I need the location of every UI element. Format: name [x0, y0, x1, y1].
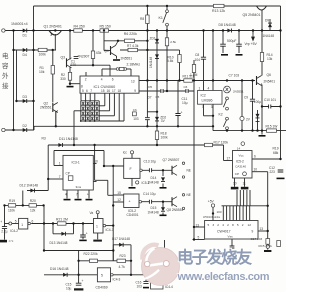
wire R1 chain — [52, 50, 54, 103]
resistor R5 — [100, 29, 109, 32]
wire osc left column — [5, 191, 23, 224]
wire R3 branch x93 — [92, 31, 94, 66]
svg-text:1: 1 — [96, 225, 98, 229]
wire D14 stub — [162, 170, 164, 187]
arrow +5V — [252, 34, 255, 40]
wire IC7 bottom stub — [231, 239, 233, 246]
svg-text:IC4-2: IC4-2 — [10, 229, 18, 233]
wire D18 loop — [113, 245, 131, 275]
zener ZD2 — [155, 117, 159, 121]
svg-text:R23: R23 — [120, 254, 126, 258]
label input chinese — [2, 51, 9, 90]
svg-text:4.7k: 4.7k — [119, 265, 126, 269]
wire mid bus y126 — [34, 125, 213, 127]
bubble IC4-3 — [111, 274, 114, 277]
wire bottom input y130 — [5, 126, 34, 130]
diode D3 — [23, 99, 27, 103]
svg-text:2N5551: 2N5551 — [233, 90, 244, 94]
svg-text:C10 101: C10 101 — [264, 98, 276, 102]
svg-text:C8: C8 — [195, 53, 199, 57]
ground Q4 — [113, 59, 120, 61]
svg-text:1: 1 — [199, 87, 201, 91]
svg-text:D13 1N4148: D13 1N4148 — [50, 241, 68, 245]
svg-text:1N4148: 1N4148 — [263, 34, 275, 38]
svg-text:5: 5 — [198, 235, 200, 239]
svg-text:13: 13 — [260, 227, 264, 231]
svg-text:4: 4 — [208, 87, 210, 91]
svg-text:D15: D15 — [151, 206, 157, 210]
resistor 100k — [38, 48, 47, 51]
capacitor C5 on y91 — [161, 88, 163, 93]
svg-text:5: 5 — [101, 273, 103, 277]
diode D16 — [63, 273, 67, 277]
svg-text:D7: D7 — [148, 96, 152, 100]
IC4-1 box — [94, 219, 104, 234]
diode D8 — [227, 29, 231, 33]
diode D1 — [23, 29, 27, 33]
wire IC5-2 inputs — [113, 195, 124, 202]
svg-text:9: 9 — [252, 229, 254, 233]
svg-text:13k: 13k — [267, 57, 273, 61]
resistor 43k — [91, 51, 94, 59]
resistor on x147 — [146, 15, 149, 24]
wire Q2 emitter — [55, 111, 57, 126]
svg-text:R19: R19 — [273, 146, 279, 150]
wire under logo x164 — [164, 240, 166, 248]
svg-text:47k: 47k — [9, 239, 14, 243]
wire IC7 right pin y231 — [258, 230, 268, 232]
wire IC2 out jog — [204, 104, 214, 116]
wire R22 bus y260 — [79, 260, 131, 262]
svg-text:D1: D1 — [23, 33, 27, 37]
svg-text:7: 7 — [90, 89, 92, 93]
svg-text:K1: K1 — [159, 16, 163, 20]
wire IC7 left pins — [193, 227, 205, 240]
ground bottom right — [264, 250, 271, 252]
svg-text:10: 10 — [233, 181, 237, 185]
svg-text:16: 16 — [107, 89, 111, 93]
resistor R1 — [51, 66, 54, 75]
wire R18 column — [156, 126, 158, 145]
diode D12 — [30, 189, 34, 193]
svg-text:10: 10 — [254, 168, 258, 172]
wire IC5 left pin — [224, 145, 233, 161]
svg-text:+5V: +5V — [208, 200, 215, 204]
svg-text:IC4-4: IC4-4 — [165, 285, 173, 289]
svg-text:C7 103: C7 103 — [229, 73, 240, 77]
svg-text:R15 1W: R15 1W — [266, 124, 279, 128]
svg-text:ZD1: ZD1 — [150, 36, 156, 40]
svg-text:C17 103: C17 103 — [251, 237, 263, 241]
resistor R18 — [155, 131, 158, 140]
svg-text:IC1 CW4060: IC1 CW4060 — [94, 85, 116, 89]
wire Q4 emitter stub — [116, 56, 118, 59]
svg-text:C6: C6 — [133, 108, 137, 112]
ground IC3 a — [64, 199, 71, 201]
capacitor C8 — [201, 57, 207, 59]
svg-text:5: 5 — [237, 223, 239, 227]
svg-text:NE: NE — [187, 169, 191, 173]
wire +5V stub — [212, 207, 214, 220]
svg-text:270: 270 — [71, 63, 77, 67]
transistor Q1 — [49, 31, 62, 36]
transistor Q4 — [110, 46, 112, 55]
svg-text:1N4001×4: 1N4001×4 — [11, 22, 28, 26]
ground x239 — [236, 54, 243, 56]
wire x157 column — [147, 31, 157, 127]
resistor R6 — [125, 39, 135, 42]
svg-text:+: + — [82, 279, 84, 283]
svg-text:D9: D9 — [265, 19, 269, 23]
crystal 2.18MHz — [116, 68, 119, 71]
svg-text:D5: D5 — [148, 85, 152, 89]
svg-text:C13 10µ: C13 10µ — [144, 159, 157, 163]
resistor R22 — [90, 259, 98, 262]
svg-text:D8 1N4148: D8 1N4148 — [219, 23, 236, 27]
ground IC3 b — [75, 199, 82, 201]
capacitor x239 — [236, 44, 242, 46]
svg-text:D14: D14 — [151, 176, 157, 180]
capacitor C6 small — [133, 112, 137, 116]
IC4-4 box — [151, 277, 164, 290]
svg-text:K2: K2 — [219, 113, 223, 117]
wire diode column x257 — [257, 110, 259, 131]
ground IC4-1 — [93, 240, 102, 242]
svg-text:3: 3 — [211, 105, 213, 109]
svg-text:110k: 110k — [8, 208, 15, 212]
wire Q3 collector x70 — [69, 31, 71, 73]
svg-text:R22 220k: R22 220k — [84, 252, 98, 256]
diode D4 — [23, 48, 27, 52]
svg-text:Va: Va — [90, 211, 94, 215]
wire R2 to IC1 pin8 — [70, 80, 80, 85]
svg-text:C6: C6 — [184, 85, 188, 89]
ground IC4 — [129, 187, 136, 189]
wire C8 column x203 — [203, 31, 205, 91]
wire R21 bypass loop — [53, 224, 74, 234]
capacitor C16 — [143, 281, 149, 283]
svg-text:43k: 43k — [96, 51, 102, 55]
input terminal bottom — [2, 128, 5, 131]
capacitor C13 — [149, 168, 151, 173]
svg-text:2N2907: 2N2907 — [78, 55, 90, 59]
capacitor C9 — [250, 99, 256, 101]
wire matrix grid — [81, 101, 99, 121]
wire Q5 Q6 column x262 — [261, 10, 263, 135]
wire IC2 column x213 — [212, 31, 214, 131]
resistor R23 — [117, 259, 126, 262]
svg-text:3: 3 — [212, 223, 214, 227]
resistor R21 — [57, 222, 66, 225]
svg-text:容: 容 — [2, 61, 9, 70]
resistor R9 — [165, 38, 168, 46]
terminal +5V — [211, 204, 214, 207]
IC2 box — [198, 91, 223, 105]
svg-text:103: 103 — [217, 210, 222, 214]
svg-text:+: + — [86, 231, 88, 235]
wire D12 branch — [27, 190, 48, 192]
svg-text:D17 1N4148: D17 1N4148 — [112, 237, 130, 241]
resistor R15 1W — [267, 129, 277, 132]
svg-text:2: 2 — [227, 223, 229, 227]
wire C9 column x252 — [252, 81, 254, 131]
svg-text:13: 13 — [196, 223, 200, 227]
wire mid bus y130 — [213, 130, 286, 132]
wire cap stub x83 — [82, 224, 84, 240]
svg-text:R7 4.3k: R7 4.3k — [127, 44, 139, 48]
black bar left — [0, 240, 7, 243]
wire IC5 out y159 — [252, 158, 281, 160]
svg-text:100k: 100k — [161, 136, 169, 140]
wire R7 branch y50 — [120, 49, 180, 51]
transistor Q5 — [257, 6, 267, 10]
wire IC7 pin comb — [223, 206, 249, 221]
svg-text:Vcc: Vcc — [239, 153, 245, 157]
wire IC4-1 stubs — [98, 214, 114, 240]
capacitor C6b on y91 — [186, 88, 188, 93]
wire IC3 right stubs — [93, 164, 96, 182]
wire top rail y6 — [34, 5, 281, 7]
diode matrix — [80, 102, 98, 122]
transistor Q3 — [66, 58, 68, 67]
svg-text:+: + — [0, 220, 2, 224]
wire control bus y80 — [139, 80, 255, 82]
svg-text:2: 2 — [242, 223, 244, 227]
svg-text:D12 1N4148: D12 1N4148 — [20, 184, 39, 188]
diode D18 — [119, 243, 123, 247]
wire x113 column — [112, 166, 114, 261]
svg-text:IC4-1: IC4-1 — [106, 228, 114, 232]
wire C15 column — [78, 251, 80, 284]
svg-text:2.2µ: 2.2µ — [1, 229, 7, 233]
svg-text:104: 104 — [195, 58, 201, 62]
terminal IC4 aux — [136, 181, 139, 184]
svg-text:R8: R8 — [140, 17, 144, 21]
wire right rail x280 — [280, 6, 282, 159]
svg-text:13: 13 — [131, 79, 135, 83]
svg-text:+: + — [181, 111, 183, 115]
transistor Q2 — [52, 103, 54, 112]
svg-text:C9: C9 — [244, 95, 248, 99]
svg-text:17: 17 — [112, 89, 116, 93]
svg-text:CP: CP — [66, 171, 70, 175]
svg-text:103: 103 — [137, 285, 143, 289]
svg-text:D11 1N4148: D11 1N4148 — [59, 137, 78, 141]
svg-text:Vrp +5V: Vrp +5V — [245, 42, 258, 46]
diode on x157 — [155, 54, 159, 58]
terminal Va — [96, 211, 99, 214]
svg-text:D2: D2 — [23, 124, 27, 128]
wire x48 column — [48, 145, 63, 191]
resistor R7 — [128, 48, 138, 51]
wire R10 column x179 — [179, 50, 181, 81]
svg-text:R21 2M: R21 2M — [56, 217, 68, 221]
svg-text:R17 120k: R17 120k — [214, 141, 229, 145]
bubble IC4 out — [140, 169, 143, 172]
resistor R13 top — [214, 4, 225, 7]
wire crystal loop — [86, 69, 131, 76]
svg-text:CD4001: CD4001 — [127, 213, 139, 217]
ground Q3 emitter — [67, 86, 74, 88]
bubble IC5-2 out — [139, 200, 142, 203]
svg-text:10: 10 — [94, 159, 98, 163]
svg-text:12k: 12k — [30, 208, 36, 212]
zener ZD1 — [155, 39, 159, 43]
terminal Vcc IC4 — [130, 151, 133, 154]
svg-text:2N5551: 2N5551 — [121, 57, 133, 61]
svg-text:IC3-1: IC3-1 — [72, 160, 80, 164]
svg-text:1N4148: 1N4148 — [149, 57, 153, 68]
capacitor 10u x83 — [80, 235, 86, 237]
svg-text:1N4148: 1N4148 — [148, 211, 159, 215]
switch K2 — [226, 92, 228, 97]
svg-text:1N4148: 1N4148 — [148, 181, 159, 185]
svg-text:Q7 2N5507: Q7 2N5507 — [163, 158, 180, 162]
svg-text:5: 5 — [82, 89, 84, 93]
wire D4 branch y50 — [14, 49, 57, 51]
capacitor on x147 — [144, 118, 150, 120]
wire D16 bus y274 — [44, 274, 163, 276]
capacitor C12 — [278, 170, 284, 172]
svg-text:6: 6 — [32, 219, 34, 223]
svg-text:68k: 68k — [273, 151, 279, 155]
wire IC1 pin9 y91 — [139, 90, 194, 92]
capacitor IC7 bottom — [229, 246, 235, 248]
svg-text:R4 250: R4 250 — [74, 25, 85, 29]
svg-text:9: 9 — [134, 89, 136, 93]
svg-text:6: 6 — [112, 78, 114, 82]
svg-text:1: 1 — [59, 161, 61, 165]
svg-text:5: 5 — [208, 223, 210, 227]
wire R6 branch y40 — [104, 31, 147, 51]
svg-text:R5 150: R5 150 — [100, 25, 111, 29]
svg-text:2N5551: 2N5551 — [40, 106, 52, 110]
wire 500u column x223 — [222, 31, 224, 54]
wire input rail x16 — [16, 50, 18, 101]
svg-text:10µ: 10µ — [66, 287, 72, 291]
capacitor 500u — [220, 44, 226, 46]
resistor R4 — [74, 29, 83, 32]
wire K1 stubs — [166, 6, 168, 31]
bubble IC4-1 — [103, 224, 106, 227]
wire gnd column x239 — [238, 31, 240, 54]
wire main bus y30 — [5, 30, 280, 32]
wire bus y250 — [44, 250, 113, 252]
svg-text:100µ: 100µ — [254, 100, 261, 104]
wire D9 stub — [269, 19, 271, 31]
svg-text:12: 12 — [117, 198, 121, 202]
svg-text:D4: D4 — [23, 53, 27, 57]
IC4-2 box — [19, 218, 28, 229]
wire input rail x33 — [33, 6, 35, 130]
svg-text:D16 1N4148: D16 1N4148 — [50, 267, 69, 271]
wire IC3 staircase — [95, 145, 114, 195]
transistor Q7 — [171, 166, 173, 175]
svg-text:NE: NE — [187, 193, 191, 197]
svg-text:6: 6 — [254, 155, 256, 159]
svg-text:接: 接 — [2, 81, 9, 90]
capacitor C10 — [269, 104, 271, 109]
black bar IC5-IC7 — [231, 187, 239, 190]
diode D15 — [161, 207, 165, 211]
wire cap stub x4 — [4, 224, 6, 240]
svg-text:17: 17 — [227, 156, 231, 160]
IC4-3 box — [97, 268, 110, 282]
transistor Q8 — [171, 197, 173, 206]
svg-text:15: 15 — [117, 191, 121, 195]
svg-text:电子发烧友: 电子发烧友 — [177, 248, 253, 267]
svg-text:4: 4 — [65, 192, 67, 196]
wire D3 branch y101 — [17, 100, 34, 102]
svg-text:Vss: Vss — [228, 235, 234, 239]
wire C16 stub — [145, 275, 147, 282]
svg-text:CP: CP — [235, 172, 239, 176]
resistor R14 — [260, 53, 263, 62]
ground y130 right — [259, 135, 266, 137]
svg-text:RC5 470k: RC5 470k — [259, 244, 273, 248]
svg-text:5: 5 — [15, 220, 17, 224]
svg-text:R19: R19 — [9, 199, 15, 203]
wire matrix staircase — [99, 93, 124, 121]
svg-text:12: 12 — [248, 223, 252, 227]
ground x223 — [221, 54, 228, 56]
svg-text:C14 10µ: C14 10µ — [143, 192, 156, 196]
svg-text:D3: D3 — [23, 95, 27, 99]
svg-text:223: 223 — [270, 170, 276, 174]
svg-text:330: 330 — [60, 77, 66, 81]
wire x147 column — [146, 6, 148, 126]
wire IC7 top pins upper — [237, 190, 250, 206]
capacitor C15 — [76, 283, 82, 285]
svg-text:6: 6 — [86, 89, 88, 93]
svg-text:Q6: Q6 — [267, 73, 272, 77]
IC1 CW4060 — [80, 76, 139, 93]
svg-text:LM386: LM386 — [202, 99, 213, 103]
svg-text:C5: C5 — [156, 95, 160, 99]
svg-text:CD4069: CD4069 — [96, 286, 108, 290]
diode loop R21 — [61, 232, 65, 236]
svg-text:R6 220k: R6 220k — [124, 32, 137, 36]
svg-text:CW4017: CW4017 — [217, 229, 231, 233]
capacitor C14 — [149, 199, 151, 204]
watermark logo — [142, 245, 180, 286]
wire D15 stub — [162, 202, 164, 215]
svg-text:18: 18 — [118, 89, 122, 93]
wire IC5 bottom stubs — [235, 178, 245, 187]
wire output column x267 — [252, 172, 268, 250]
svg-text:Q3: Q3 — [61, 55, 66, 59]
svg-text:IC5-2: IC5-2 — [236, 160, 244, 164]
wire IC3 left loop — [54, 151, 104, 166]
svg-text:Icc: Icc — [123, 151, 127, 155]
bubble IC4-2 — [28, 222, 31, 225]
wire bias y65 — [70, 65, 110, 76]
ground D15 — [160, 214, 167, 216]
wire x44 column — [43, 205, 45, 250]
wire input rail x13 — [13, 31, 15, 131]
diode D14 — [161, 177, 165, 181]
svg-text:103: 103 — [133, 117, 139, 121]
wire x194 column — [193, 60, 195, 240]
resistor on y145 — [205, 143, 213, 146]
svg-text:2.5k: 2.5k — [170, 40, 176, 44]
diode D9 — [268, 23, 272, 27]
svg-text:R13 12k: R13 12k — [212, 9, 225, 13]
switch K1 — [166, 10, 169, 13]
wire IC3 bottom stubs — [67, 190, 89, 199]
svg-text:www.elecfans.com: www.elecfans.com — [177, 271, 270, 283]
resistor R20 — [29, 204, 36, 207]
